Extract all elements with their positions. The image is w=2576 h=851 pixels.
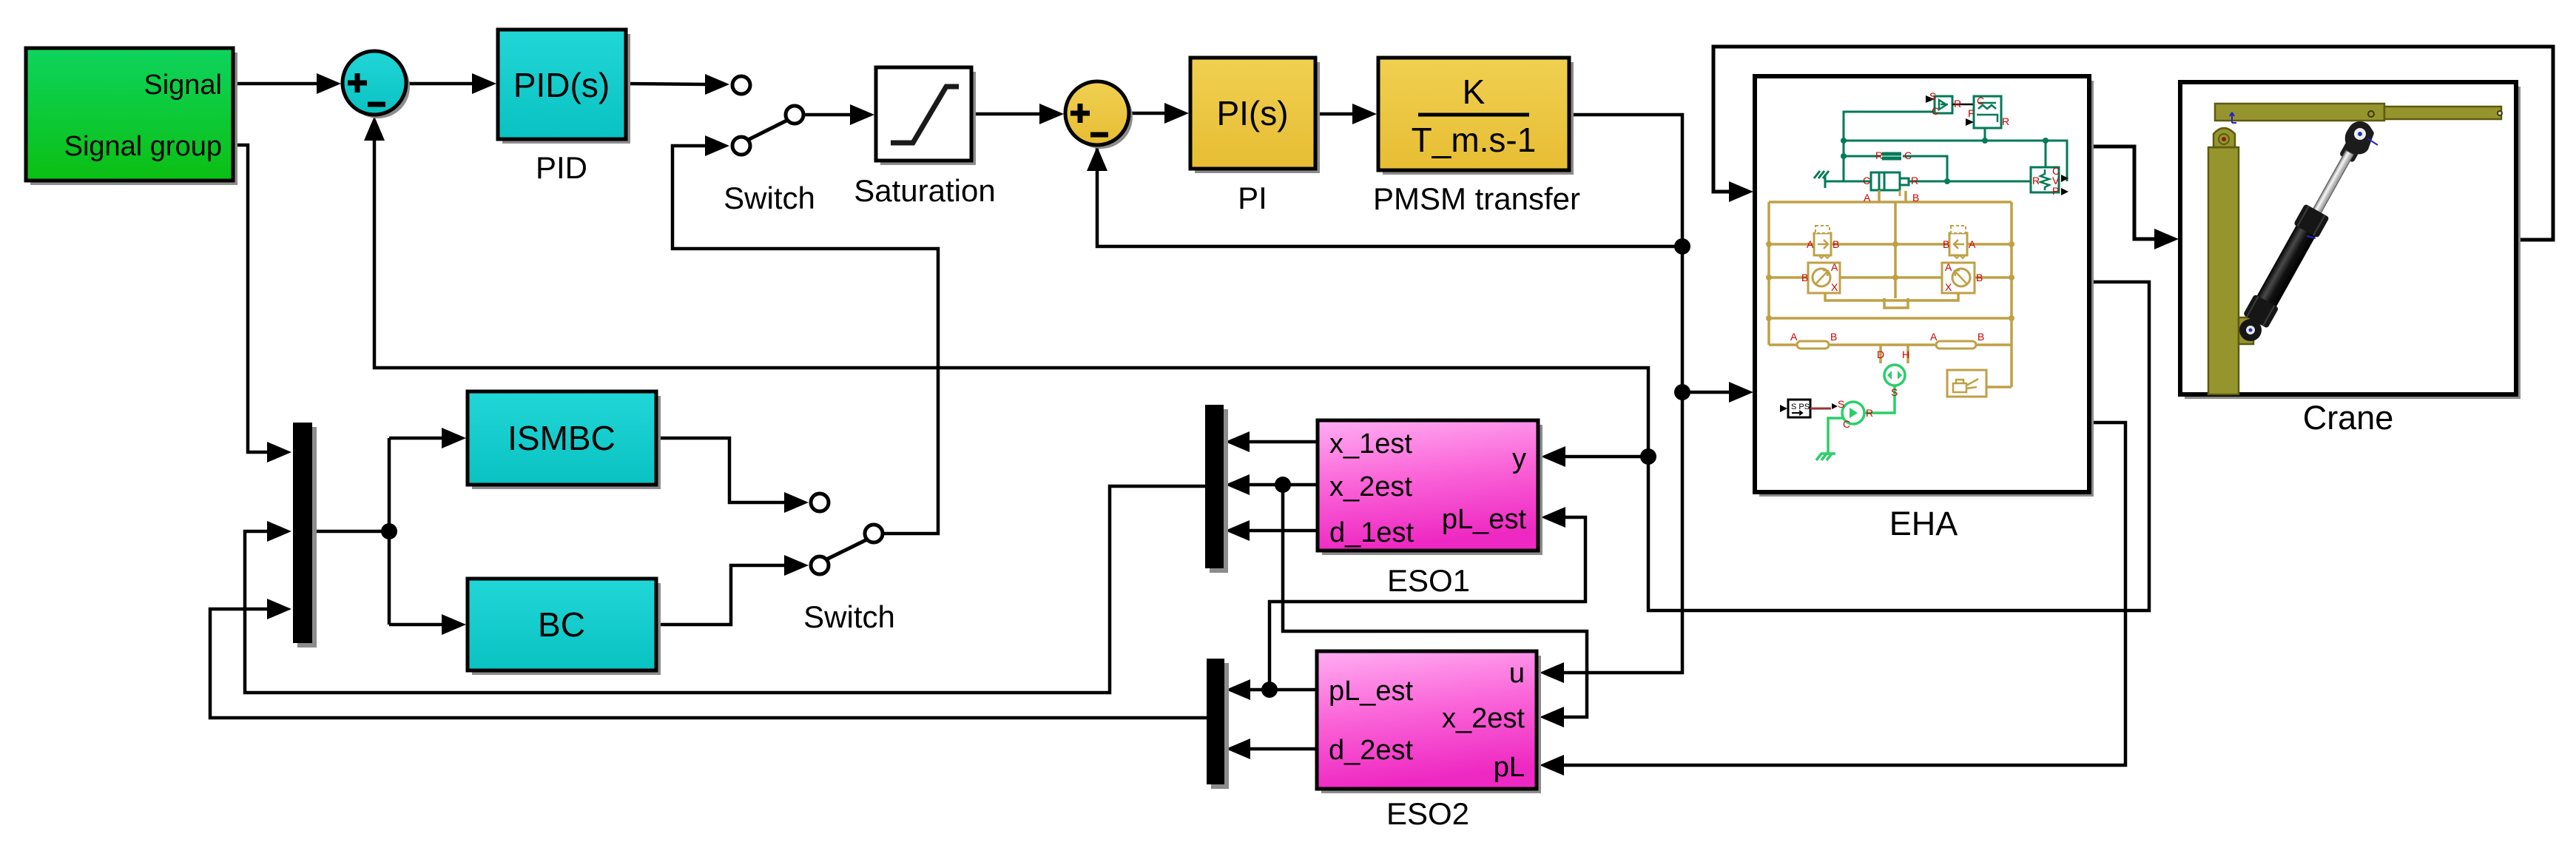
svg-text:d_1est: d_1est xyxy=(1329,517,1415,548)
svg-text:R: R xyxy=(1866,407,1873,419)
wire Signal to Sum1 xyxy=(233,82,318,86)
svg-text:B: B xyxy=(1943,238,1949,250)
svg-text:P: P xyxy=(2052,185,2059,197)
wire Mux2 output to big Mux in3 xyxy=(210,609,1207,718)
EHA motor block xyxy=(1842,402,1864,424)
block BC xyxy=(468,579,661,675)
svg-text:B: B xyxy=(1977,331,1984,343)
wire PID to Switch1 top xyxy=(626,84,707,84)
block ISMBC xyxy=(468,391,661,489)
svg-text:B: B xyxy=(1830,331,1837,343)
svg-text:C: C xyxy=(1932,105,1939,117)
svg-text:S PS: S PS xyxy=(1791,403,1810,411)
svg-text:ESO2: ESO2 xyxy=(1386,796,1469,831)
EHA green motor net xyxy=(1816,386,1895,460)
svg-text:ESO1: ESO1 xyxy=(1387,563,1470,598)
wire Switch1 common to Saturation xyxy=(803,113,851,117)
wire EHA out3 pL to ESO2 xyxy=(1562,423,2125,765)
EHA S-PS converter xyxy=(1780,400,1838,417)
EHA pilot valve left xyxy=(1808,263,1840,293)
switch Switch1 xyxy=(732,76,803,155)
crane hydraulic cylinder xyxy=(2233,127,2372,346)
wire Crane output feedback to EHA input1 xyxy=(1713,47,2553,240)
svg-text:pL_est: pL_est xyxy=(1329,676,1414,707)
EHA teal resistor xyxy=(1882,154,1901,158)
arrow into ESO2 u xyxy=(1540,662,1564,683)
svg-text:A: A xyxy=(1945,261,1952,273)
junction node pL_est xyxy=(1261,682,1278,698)
svg-text:PID(s): PID(s) xyxy=(513,66,610,104)
svg-text:PI(s): PI(s) xyxy=(1216,94,1288,132)
junction node y-ESO1 xyxy=(1640,448,1656,465)
EHA relief valve block2 xyxy=(1966,96,2001,128)
svg-text:Signal group: Signal group xyxy=(64,131,222,162)
svg-text:S: S xyxy=(1929,90,1936,102)
block PMSM transfer xyxy=(1373,58,1580,216)
crane boom beam xyxy=(2215,104,2384,121)
svg-text:Signal: Signal xyxy=(144,70,222,101)
svg-text:PI: PI xyxy=(1238,181,1267,215)
junction node x_2est xyxy=(1275,477,1291,493)
wire ESO1 d_1est to Mux1 xyxy=(1250,529,1318,533)
svg-text:R: R xyxy=(2002,115,2009,127)
wire ESO1 x_1est to Mux1 xyxy=(1250,440,1318,444)
EHA pipe right xyxy=(1936,341,1976,349)
crane boom extension xyxy=(2384,107,2501,119)
svg-text:A: A xyxy=(1969,238,1976,250)
svg-text:PID: PID xyxy=(536,150,587,185)
EHA spring block xyxy=(2031,167,2068,195)
block ESO1 xyxy=(1318,420,1542,598)
EHA tan junction dots xyxy=(1766,241,2014,321)
svg-text:Crane: Crane xyxy=(2303,399,2394,437)
svg-text:x_2est: x_2est xyxy=(1442,703,1525,734)
svg-text:B: B xyxy=(1912,192,1919,203)
svg-text:T_m.s-1: T_m.s-1 xyxy=(1412,121,1537,159)
EHA pump xyxy=(1884,365,1905,386)
svg-text:K: K xyxy=(1463,73,1486,111)
mux Mux1 (ESO1 demux bar) xyxy=(1205,405,1228,573)
EHA oil can block xyxy=(1947,370,1986,397)
wire Switch2 to Switch1 bottom input xyxy=(672,146,938,534)
svg-text:A: A xyxy=(1831,261,1838,273)
wire Mux1 output to big Mux in2 xyxy=(245,486,1205,693)
subsystem EHA xyxy=(1755,76,2094,542)
EHA tan hydraulic net xyxy=(1769,191,2012,387)
svg-text:S: S xyxy=(1838,398,1844,410)
EHA pipe left xyxy=(1797,341,1829,349)
svg-text:X: X xyxy=(1831,281,1838,293)
svg-text:B: B xyxy=(1801,272,1808,283)
svg-text:R: R xyxy=(1875,149,1883,161)
crane rod blue mark xyxy=(2307,236,2316,238)
EHA sensor block1 xyxy=(1926,95,1974,113)
svg-text:B: B xyxy=(1832,238,1839,250)
wire ESO1 x_2est to Mux1 and ESO2 xyxy=(1250,485,1587,717)
svg-text:X: X xyxy=(1945,281,1952,293)
svg-text:Switch: Switch xyxy=(724,181,815,215)
junction node u-sum2 xyxy=(1674,238,1690,255)
wire Saturation to Sum2 xyxy=(971,112,1040,116)
sum junction Sum2 xyxy=(1065,81,1133,149)
block Signal Builder (Signal group) xyxy=(26,48,237,185)
wire u branch to EHA input2 xyxy=(1682,391,1731,394)
block Saturation xyxy=(854,67,995,208)
svg-text:y: y xyxy=(1512,443,1526,474)
svg-text:C: C xyxy=(1863,175,1870,186)
switch Switch1 lever xyxy=(748,120,788,140)
crane column top pivot piece xyxy=(2213,128,2235,147)
subsystem Crane xyxy=(2180,82,2521,437)
EHA check valve right xyxy=(1949,226,1967,258)
block PI xyxy=(1190,58,1320,215)
svg-text:BC: BC xyxy=(538,605,585,644)
junction node mux out xyxy=(381,523,397,539)
svg-text:A: A xyxy=(1790,331,1798,343)
svg-text:R: R xyxy=(1954,98,1961,110)
switch Switch2 xyxy=(811,494,883,574)
wire big Mux output to ISMBC and BC xyxy=(312,438,442,625)
wire y branch to ESO1 xyxy=(1564,455,1648,459)
svg-text:d_2est: d_2est xyxy=(1329,735,1414,766)
wire u feedback to Sum2 xyxy=(1097,148,1682,246)
block ESO2 xyxy=(1317,651,1541,831)
sum junction Sum1 xyxy=(343,51,410,118)
EHA hydraulic circuit teal net xyxy=(1814,112,2067,188)
wire Signal group to big Mux in1 xyxy=(233,145,268,452)
svg-text:x_1est: x_1est xyxy=(1329,428,1412,460)
wire EHA out2 y line xyxy=(374,141,2149,610)
crane column xyxy=(2208,147,2239,394)
wire PI to PMSM transfer xyxy=(1315,112,1353,116)
svg-text:pL: pL xyxy=(1494,752,1525,783)
svg-text:C: C xyxy=(1904,149,1912,161)
wire BC to Switch2 bottom xyxy=(656,565,786,625)
wire ISMBC to Switch2 top xyxy=(656,438,786,502)
svg-text:B: B xyxy=(1976,272,1983,283)
svg-text:Switch: Switch xyxy=(803,599,895,634)
svg-text:A: A xyxy=(1807,238,1814,250)
EHA red port letters xyxy=(1790,90,2060,430)
wire EHA out1 to Crane xyxy=(2089,147,2157,239)
EHA teal junction dots xyxy=(1841,138,2049,184)
svg-text:H: H xyxy=(1902,349,1909,360)
svg-text:R: R xyxy=(1911,175,1918,186)
svg-text:x_2est: x_2est xyxy=(1329,471,1412,502)
svg-text:A: A xyxy=(1930,331,1938,343)
svg-text:D: D xyxy=(1877,349,1884,360)
wire ESO2 d_2est to Mux2 xyxy=(1250,747,1317,751)
wire ESO2 pL_est to Mux2 and ESO1 xyxy=(1250,517,1585,690)
svg-text:Saturation: Saturation xyxy=(854,173,995,208)
svg-text:R: R xyxy=(2032,175,2040,186)
wire PMSM transfer output trunk u xyxy=(1562,115,1682,673)
svg-text:pL_est: pL_est xyxy=(1442,504,1527,535)
crane cylinder top clevis xyxy=(2345,121,2378,154)
svg-text:PMSM transfer: PMSM transfer xyxy=(1373,181,1580,216)
EHA check valve left xyxy=(1814,226,1831,258)
wire Sum1 to PID xyxy=(406,82,473,86)
switch Switch2 lever xyxy=(826,539,867,559)
block PID xyxy=(498,30,630,185)
svg-text:S: S xyxy=(1891,386,1898,398)
svg-text:F: F xyxy=(1968,107,1975,119)
svg-text:ISMBC: ISMBC xyxy=(508,419,616,457)
svg-text:C: C xyxy=(1977,95,1984,107)
mux big Mux xyxy=(293,423,317,647)
crane lower bracket xyxy=(2239,317,2253,344)
svg-text:C: C xyxy=(1843,418,1850,430)
svg-text:EHA: EHA xyxy=(1889,505,1958,542)
EHA pilot valve right xyxy=(1942,263,1975,293)
junction node u-EHA xyxy=(1674,384,1690,400)
svg-text:A: A xyxy=(1864,192,1871,203)
EHA hydraulic cylinder xyxy=(1871,172,1909,196)
crane frame marker xyxy=(2230,112,2236,123)
mux Mux2 (ESO2 demux bar) xyxy=(1207,659,1229,789)
wire Sum2 to PI xyxy=(1129,112,1165,115)
svg-text:u: u xyxy=(1509,658,1525,689)
